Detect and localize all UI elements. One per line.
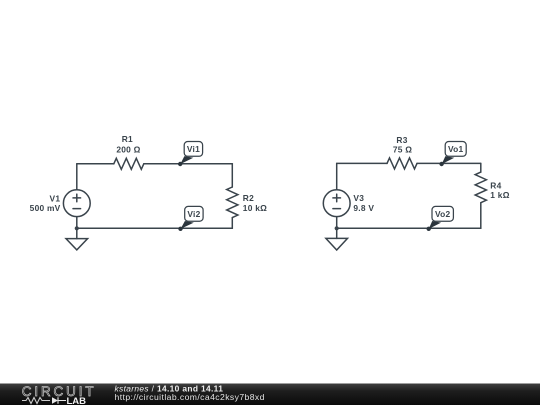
wire V1 bottom to bottom wire bbox=[76, 217, 78, 229]
logo diode bbox=[52, 397, 58, 403]
ground (right) bbox=[336, 228, 338, 238]
voltage source V1 bbox=[63, 190, 90, 217]
svg-text:LAB: LAB bbox=[67, 396, 87, 405]
svg-text:200 Ω: 200 Ω bbox=[116, 145, 140, 155]
wire R4 to bottom-right corner bbox=[480, 203, 482, 228]
svg-text:Vo1: Vo1 bbox=[448, 144, 464, 154]
wire bottom of left circuit bbox=[77, 227, 233, 229]
resistor R2 bbox=[227, 187, 238, 218]
svg-text:R2: R2 bbox=[243, 193, 254, 203]
svg-text:V3: V3 bbox=[353, 193, 364, 203]
svg-text:V1: V1 bbox=[50, 193, 61, 203]
probe Vi2 bbox=[178, 206, 203, 231]
svg-text:10 kΩ: 10 kΩ bbox=[243, 203, 267, 213]
svg-text:Vi1: Vi1 bbox=[187, 144, 200, 154]
wire right vertical to R2 bbox=[231, 164, 233, 187]
resistor R4 bbox=[475, 172, 486, 203]
svg-text:Vi2: Vi2 bbox=[187, 209, 200, 219]
wire left vertical from top wire to V1 top bbox=[76, 164, 78, 190]
wire R2 to bottom-right corner bbox=[231, 218, 233, 229]
wire R3 to top-right corner bbox=[417, 162, 481, 164]
wire top-left to R1 bbox=[77, 163, 114, 165]
wire right circuit left vertical bbox=[336, 163, 338, 189]
svg-text:1 kΩ: 1 kΩ bbox=[490, 190, 509, 200]
wire V3 bottom to bottom wire bbox=[336, 217, 338, 229]
svg-text:75 Ω: 75 Ω bbox=[393, 144, 412, 154]
svg-text:Vo2: Vo2 bbox=[435, 209, 451, 219]
footer bar bbox=[0, 384, 540, 405]
probe Vo2 bbox=[427, 206, 454, 231]
resistor R3 bbox=[387, 158, 417, 169]
voltage source V3 bbox=[323, 190, 350, 217]
junction node right bbox=[335, 226, 339, 230]
wire top-left to R3 bbox=[337, 162, 387, 164]
svg-text:500 mV: 500 mV bbox=[30, 203, 61, 213]
wire right vertical to R4 bbox=[480, 163, 482, 172]
svg-text:R1: R1 bbox=[122, 134, 133, 144]
ground (left) bbox=[76, 228, 78, 238]
probe Vo1 bbox=[439, 142, 466, 167]
wire R1 to top-right corner bbox=[144, 163, 233, 165]
junction node left bbox=[75, 226, 79, 230]
svg-text:http://circuitlab.com/ca4c2ksy: http://circuitlab.com/ca4c2ksy7b8xd bbox=[115, 392, 265, 402]
resistor R1 bbox=[114, 158, 144, 169]
logo zigzag resistor bbox=[22, 398, 50, 404]
svg-text:9.8 V: 9.8 V bbox=[353, 203, 374, 213]
probe Vi1 bbox=[178, 142, 203, 167]
wire bottom of right circuit bbox=[337, 227, 481, 229]
